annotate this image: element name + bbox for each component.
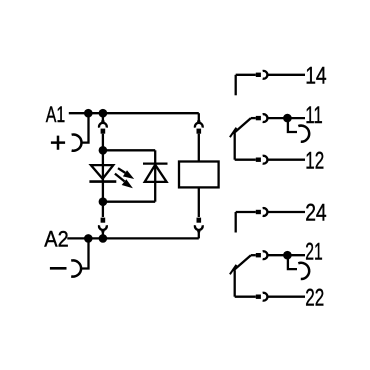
svg-text:A2: A2 xyxy=(44,227,68,252)
plug connector row 12 xyxy=(256,156,268,164)
LED D1 cathode bar xyxy=(89,180,116,183)
wire common vertical 11-12 xyxy=(234,133,236,160)
contact 14 fixed stub xyxy=(235,75,237,96)
clamp terminal 11 xyxy=(298,126,309,142)
wire plus-clamp to A1 rail xyxy=(81,113,89,142)
wire minus-clamp to A2 rail xyxy=(81,238,89,268)
relay coil K1 xyxy=(179,162,219,188)
wire bottom of diode loop xyxy=(103,201,155,203)
wire row 11 right xyxy=(267,117,305,119)
wire A1 rail xyxy=(69,112,199,114)
plug connector row 22 xyxy=(256,293,268,301)
svg-text:A1: A1 xyxy=(46,102,66,127)
minus sign xyxy=(50,267,67,270)
LED D1 triangle xyxy=(91,165,113,179)
wire row 24 right xyxy=(267,211,305,213)
svg-text:14: 14 xyxy=(305,64,327,90)
wire row 22 xyxy=(235,296,256,298)
svg-text:11: 11 xyxy=(305,103,323,129)
contact blade K1-2 (changeover) xyxy=(233,255,251,271)
moving-contact tick K1-2 xyxy=(230,265,237,275)
junction dot LED-bottom xyxy=(99,197,108,206)
svg-text:24: 24 xyxy=(305,201,327,227)
plug connector LED-bottom (vertical, above A2 right dot) xyxy=(99,218,107,239)
junction dot A2-right xyxy=(99,234,108,243)
plug connector row 11 xyxy=(256,114,268,122)
svg-text:21: 21 xyxy=(305,239,323,265)
svg-text:22: 22 xyxy=(305,286,324,312)
plug connector coil-bottom (vertical, below coil) xyxy=(195,218,203,239)
contact blade K1-1 (changeover) xyxy=(233,118,251,134)
plug connector row 21 xyxy=(256,251,268,259)
junction dot A1-right xyxy=(99,109,108,118)
wire coil branch upper xyxy=(198,134,200,162)
junction dot LED-top xyxy=(99,146,108,155)
diode D2 cathode bar xyxy=(143,162,168,164)
wire row 24 left xyxy=(236,211,256,213)
clamp terminal plus xyxy=(72,135,82,151)
clamp terminal 21 xyxy=(298,263,309,279)
wire diode branch vertical xyxy=(154,150,156,201)
wire coil branch lower xyxy=(198,187,200,217)
wire A2 rail xyxy=(67,237,199,239)
wire row 12 right xyxy=(267,159,305,161)
plug connector coil-top (vertical, on coil branch) xyxy=(195,113,203,134)
svg-text:12: 12 xyxy=(305,148,324,174)
wire row 21 right xyxy=(267,254,305,256)
plus sign xyxy=(51,136,65,150)
wire row 14 right xyxy=(267,74,305,76)
wire row 22 right xyxy=(267,296,305,298)
LED arrow 1 xyxy=(118,168,134,179)
LED arrow 2 xyxy=(115,174,133,189)
wire 21 clamp stub xyxy=(288,257,297,269)
junction dot row 21 xyxy=(283,251,292,260)
wire top of diode loop xyxy=(103,149,155,151)
junction dot A1-left xyxy=(84,109,93,118)
wire row 14 left xyxy=(236,74,256,76)
plug connector row 24 xyxy=(256,208,268,216)
diode D2 triangle xyxy=(145,165,167,182)
junction dot row 11 xyxy=(283,114,292,123)
wire common vertical 21-22 xyxy=(234,270,236,297)
clamp terminal minus xyxy=(71,260,81,276)
wire row 11 left xyxy=(251,117,256,119)
wire row 12 xyxy=(235,159,256,161)
contact 24 fixed stub xyxy=(235,212,237,233)
wire 11 clamp stub xyxy=(288,120,297,132)
wire LED branch vertical xyxy=(102,134,104,217)
plug connector coil-plus (vertical, below A1 right dot) xyxy=(99,115,107,134)
moving-contact tick K1-1 xyxy=(230,128,237,138)
wire row 21 left xyxy=(251,254,256,256)
junction dot A2-left xyxy=(84,234,93,243)
plug connector row 14 xyxy=(256,71,268,79)
